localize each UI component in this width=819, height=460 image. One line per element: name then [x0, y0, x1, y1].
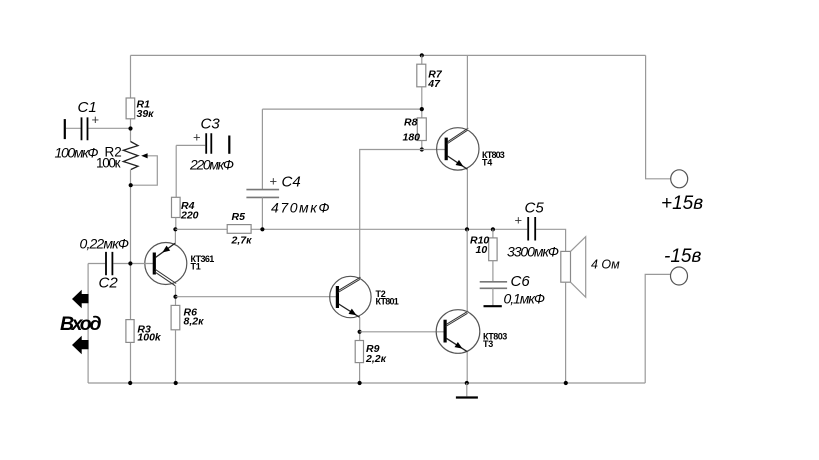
node C4 bottom junction [260, 227, 264, 231]
input arrow upper [72, 290, 89, 308]
wire T1 collector to T2 base [176, 296, 337, 298]
wire +15v drop [646, 55, 671, 178]
wire R7 to R8 [421, 87, 423, 118]
wire C3 to R4 [175, 145, 177, 197]
node R8/T4 base junction [420, 147, 424, 151]
svg-text:39к: 39к [137, 108, 155, 120]
wire T2 collector to T4 base [360, 150, 422, 279]
wire C4 top to R7/R8 node [262, 108, 421, 110]
capacitor C3 [176, 116, 234, 173]
wire T4 collector to rail [466, 55, 468, 128]
svg-text:180: 180 [403, 132, 421, 144]
input arrow lower [72, 336, 89, 354]
resistor R8 [403, 117, 427, 144]
node R7/R8/C4 junction [420, 107, 424, 111]
wire input vertical [87, 264, 89, 384]
resistor R10 [470, 227, 497, 260]
node junction C1/R1/R2 [128, 126, 132, 130]
potentiometer R2 [96, 142, 157, 186]
node T3 emitter rail junction [465, 381, 469, 385]
capacitor C6 [480, 261, 545, 307]
svg-text:C6: C6 [511, 273, 531, 290]
speaker [561, 237, 620, 298]
wire output bus [175, 229, 565, 251]
svg-text:+: + [270, 174, 278, 189]
resistor R5 [227, 211, 252, 247]
svg-text:100мкФ: 100мкФ [55, 145, 99, 161]
svg-text:Вход: Вход [60, 313, 102, 335]
svg-text:100k: 100k [137, 332, 162, 344]
svg-text:+15в: +15в [661, 193, 703, 214]
wire R4 bottom [175, 218, 177, 230]
resistor R7 [417, 64, 443, 90]
svg-text:8,2к: 8,2к [184, 316, 205, 328]
capacitor C1 [55, 99, 131, 161]
capacitor C5 [507, 200, 559, 260]
svg-text:R8: R8 [404, 117, 418, 129]
wire T1 collector down [175, 286, 177, 306]
svg-text:47: 47 [427, 78, 441, 90]
transistor T2 KT801 [330, 276, 399, 317]
svg-text:10: 10 [476, 244, 488, 256]
svg-text:+: + [515, 213, 523, 228]
wire T2 emitter to T3 base [360, 331, 445, 333]
node top rail R7 [420, 53, 424, 57]
wire R8 bottom [421, 141, 423, 150]
wire T4 emitter down [466, 169, 468, 229]
svg-text:2,2к: 2,2к [365, 353, 387, 365]
ground [466, 383, 468, 396]
svg-text:220: 220 [180, 210, 199, 222]
wire T3 collector up [466, 229, 468, 311]
resistor R4 [172, 197, 199, 221]
wire T4 base [422, 149, 445, 151]
transistor T1 KT361 [133, 243, 215, 286]
svg-text:4 Ом: 4 Ом [591, 258, 620, 272]
resistor R1 [126, 98, 154, 120]
capacitor C4 [246, 109, 329, 229]
svg-text:100к: 100к [96, 156, 121, 171]
wire bottom rail [88, 382, 645, 384]
resistor R9 [355, 341, 386, 366]
terminal -15v [671, 267, 688, 285]
node R3 bottom rail [128, 381, 132, 385]
svg-text:3300мкФ: 3300мкФ [507, 244, 559, 260]
wire R7 top [421, 55, 423, 64]
svg-text:C2: C2 [99, 275, 119, 292]
svg-text:2,7к: 2,7к [231, 235, 253, 247]
svg-text:КТ801: КТ801 [376, 297, 399, 307]
wire R6 bottom [175, 330, 177, 383]
svg-text:C1: C1 [78, 99, 97, 116]
node R9 bottom rail [358, 381, 362, 385]
capacitor C2 [80, 236, 131, 292]
svg-text:C4: C4 [282, 174, 301, 191]
svg-text:220мкФ: 220мкФ [189, 157, 234, 173]
node R4/R5/T1 emitter junction [173, 227, 177, 231]
node T2 emitter junction [358, 330, 362, 334]
resistor R6 [171, 305, 204, 329]
transistor T4 KT803 [437, 128, 505, 170]
svg-text:-15в: -15в [664, 246, 701, 267]
wire R9 bottom [359, 363, 361, 383]
svg-text:R5: R5 [232, 211, 246, 223]
svg-text:Т3: Т3 [483, 339, 493, 349]
node junction C2/base T1 [128, 261, 132, 265]
transistor T3 KT803 [436, 310, 507, 354]
svg-text:+: + [193, 130, 201, 145]
svg-text:0,22мкФ: 0,22мкФ [80, 236, 130, 252]
resistor R3 [126, 320, 162, 344]
wire top rail [131, 54, 646, 56]
wire T2 emitter down [359, 317, 361, 340]
node speaker rail junction [564, 381, 568, 385]
svg-text:Т1: Т1 [191, 262, 201, 272]
terminal +15v [671, 170, 688, 188]
svg-text:Т4: Т4 [482, 158, 492, 168]
node R6 bottom rail [174, 381, 178, 385]
wire speaker to rail [565, 282, 567, 383]
svg-text:C3: C3 [201, 116, 221, 133]
svg-text:C5: C5 [525, 200, 545, 217]
wire T3 emitter down [466, 352, 468, 383]
node T4 emitter output junction [465, 227, 469, 231]
wire T1 emitter up [174, 229, 176, 243]
node T1 collector junction [173, 295, 177, 299]
wire -15v drop [645, 274, 670, 383]
svg-text:0,1мкФ: 0,1мкФ [504, 291, 546, 307]
svg-text:470мкФ: 470мкФ [271, 200, 330, 216]
wire left chain vertical [130, 55, 132, 383]
node R2 wiper junction [129, 183, 133, 187]
